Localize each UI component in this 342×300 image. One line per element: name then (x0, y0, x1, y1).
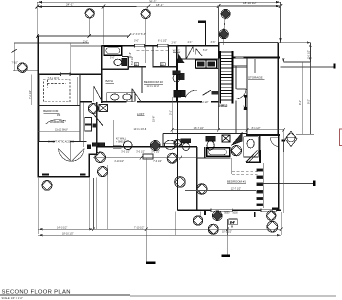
svg-text:3'-0 1/2": 3'-0 1/2" (121, 151, 130, 153)
tag circle-diamond x177.9 (174, 139, 182, 147)
wc corner sink (178, 53, 185, 63)
wall vertical x218.8 (218, 42, 220, 58)
svg-text:16'-7 1/2": 16'-7 1/2" (194, 127, 204, 130)
tick left dim (12, 49, 17, 52)
extension line x103.6 (103, 7, 105, 45)
window tag circle-diamond below (98, 167, 108, 177)
wc door arc (185, 90, 197, 97)
wic walls (177, 46, 186, 59)
bath2 wall left x162.9 (162, 134, 164, 147)
extension line left x37.3 (36, 2, 38, 36)
wall left face x83.3 (82, 102, 84, 147)
wall hall y101.8 (80, 101, 219, 103)
detector circle on wall (124, 141, 133, 150)
bath toilet (114, 59, 127, 66)
closet vertical x231.2 (230, 158, 232, 174)
wall closet divider x153 (152, 46, 154, 67)
hall wc toilet lower (174, 90, 185, 97)
extension x89.3 bottom (88, 178, 90, 229)
dimension line bottom segments y227.6 (38, 227, 282, 231)
window tag circle-diamond dim row (95, 152, 106, 163)
window marks left wing bottom (42, 173, 86, 175)
svg-text:3'-0 1/2": 3'-0 1/2" (151, 151, 160, 153)
wall jog vertical x97 (96, 147, 98, 154)
closet bottom wall y162.2 (246, 161, 261, 163)
svg-text:10'-2 1/2": 10'-2 1/2" (222, 231, 232, 233)
svg-text:3'-6": 3'-6" (211, 41, 216, 44)
wall storage top y57.6 (234, 57, 280, 59)
wall y59 laundry top (177, 58, 218, 60)
extension x93.5 bottom (93, 178, 95, 229)
wall bedroom3 right x79.8 (79, 74, 81, 141)
svg-text:5050: 5050 (224, 213, 230, 215)
svg-text:6'-1 1/2": 6'-1 1/2" (158, 39, 167, 42)
tag box with X (99, 105, 108, 112)
text BATH (106, 79, 114, 83)
window tag left circle-diamond (18, 63, 28, 73)
svg-text:4'-10 1/2": 4'-10 1/2" (114, 161, 124, 163)
window tag boxes on wall (93, 143, 105, 146)
leader through left tag (13, 69, 38, 71)
storage bottom wall y134.8 (246, 134, 280, 136)
laundry appliances (195, 60, 216, 68)
extension x38.2 bottom (37, 178, 39, 234)
svg-text:3'-1": 3'-1" (169, 110, 172, 115)
svg-text:18'-10 1/2": 18'-10 1/2" (62, 232, 74, 235)
svg-text:11'-8": 11'-8" (129, 52, 132, 58)
dimension line y61.8 (282, 58, 310, 62)
text WIC (173, 48, 181, 52)
window in left wing top wall (61, 73, 71, 75)
svg-text:W.I.C.: W.I.C. (173, 48, 181, 52)
tag circle-diamond D (267, 221, 278, 232)
window in top wall 1 (135, 45, 145, 47)
dim row mid y157.7 (93, 156, 197, 160)
bath door swing (94, 86, 102, 101)
black tick below wall 1 (204, 211, 206, 215)
dimension line bottom overall y234.2 (38, 234, 281, 236)
border line bottom (130, 295, 336, 297)
dim texts bottom right (222, 213, 238, 234)
window marks storage left wall (244, 95, 247, 109)
svg-text:42" WALL: 42" WALL (116, 138, 127, 141)
wc toilet (173, 71, 180, 82)
window tag box 1 (134, 63, 139, 67)
bath2 toilet (181, 139, 191, 151)
window in top wall 2 (158, 45, 169, 47)
window tag box 2 (160, 63, 165, 67)
wall left inner face (39, 74, 41, 141)
closet dashes bedroom1 (232, 172, 258, 175)
dimension line y129.8 (171, 128, 285, 132)
wall interior x101.8 (101, 46, 103, 103)
bath2 sink (165, 140, 177, 149)
extension x283.6 bottom (283, 130, 285, 213)
dimension line top segments (37, 5, 280, 8)
bath vanity (107, 93, 135, 102)
closet door arc right (270, 137, 279, 146)
svg-text:3'-0 1/2": 3'-0 1/2" (136, 151, 145, 153)
wall bath y69.3 (102, 68, 129, 70)
tag circle-diamond on dim row x172 (167, 153, 177, 163)
dimension vertical right x310.4 (309, 43, 311, 62)
wall jog y154.3 (88, 153, 97, 155)
wall x258.5 master right (259, 134, 261, 151)
extension line x218.5 (218, 6, 220, 130)
bed dashed (44, 80, 71, 102)
wall wardrobe bottom y141.6 (38, 141, 86, 143)
tag circle-diamond B filled (212, 211, 222, 221)
bath2 wall top y133.7 (163, 133, 247, 135)
wc marks (178, 73, 185, 80)
keynote leader bedroom right (262, 181, 316, 186)
bath2 wall y143.2 (163, 142, 180, 144)
window tag W1 circle-diamond (85, 9, 94, 36)
leader down x226.3 (222, 235, 231, 257)
svg-text:STORAGE: STORAGE (248, 75, 263, 79)
arrowheads dim ends (37, 1, 281, 43)
svg-text:7'-4 1/2": 7'-4 1/2" (29, 90, 32, 99)
wall laundry bottom y68.7 (195, 68, 218, 70)
window tag mid circle-diamond (88, 104, 98, 114)
window tag circle-diamond bedroom1 (197, 184, 208, 195)
dimension line mid-left y36 (36, 34, 130, 38)
wall right exterior x278.4 upper (277, 42, 279, 135)
roof line right top y42.4 (219, 41, 278, 43)
corner block (87, 144, 91, 149)
svg-text:5'-0": 5'-0" (203, 50, 208, 52)
master shower block (222, 135, 230, 142)
svg-text:SCALE: 1/4" = 1'-0": SCALE: 1/4" = 1'-0" (2, 297, 23, 300)
leader down x146.3 (146, 235, 156, 264)
svg-text:3'-0 1/2": 3'-0 1/2" (307, 50, 310, 59)
window tag W2 circle-diamond (141, 9, 150, 63)
svg-text:11'-0 x 11'-8: 11'-0 x 11'-8 (147, 86, 160, 88)
dim vert x172.2 hall (171, 97, 173, 134)
text BEDROOM 1 (227, 180, 246, 184)
wall closet bottom y66.8 (129, 66, 177, 68)
svg-text:BEDROOM #2: BEDROOM #2 (144, 80, 163, 84)
dimension arrowed line right y42.4 (278, 41, 310, 43)
window in loft south wall (113, 146, 122, 149)
wall loft south y146.9 (97, 146, 197, 148)
tick top dim x103.6 (102, 4, 106, 8)
tag circle-diamond E (208, 224, 218, 234)
linen shelves (85, 118, 92, 131)
text shower note (116, 138, 127, 144)
svg-text:7'-10": 7'-10" (12, 62, 18, 65)
keynote flag top (198, 22, 206, 45)
storage dim terminator line (296, 133, 314, 135)
tick top dim x218.5 (217, 4, 221, 8)
svg-text:5'-1" 3'-0" 6'-3": 5'-1" 3'-0" 6'-3" (130, 33, 146, 36)
svg-text:3'-0": 3'-0" (134, 39, 139, 42)
master vanity (244, 137, 258, 157)
keynote flag mid right (282, 140, 285, 153)
roof edge lines (71, 43, 102, 74)
hall door swing 2 (196, 49, 202, 57)
svg-text:7'-10 1/2": 7'-10 1/2" (134, 227, 144, 230)
dim texts above y151 (121, 151, 160, 153)
wall corner x89.2 (88, 154, 90, 178)
angled wall closet (246, 150, 259, 162)
svg-text:2 9R12: 2 9R12 (218, 104, 227, 108)
extension vertical x302.2 (301, 62, 303, 134)
master tub (207, 148, 230, 156)
hall door leaf (203, 90, 211, 95)
bedroom2 door swing (132, 89, 141, 102)
keynote leader right y67 (280, 64, 334, 69)
svg-text:24'-1": 24'-1" (66, 3, 74, 7)
wall top main y45.6 (102, 45, 219, 47)
svg-text:5050: 5050 (233, 213, 239, 215)
wardrobe door arc (46, 120, 66, 124)
interior wall left wing x70.3 (69, 142, 71, 161)
svg-text:WARDROBE: WARDROBE (50, 121, 65, 124)
text LOFT (137, 112, 145, 116)
stair hall wall y66.8 double (233, 66, 247, 67)
wall x196.8 bedroom1 left upper (196, 147, 198, 158)
svg-text:18'-1": 18'-1" (156, 3, 163, 7)
svg-text:BATH: BATH (106, 79, 114, 83)
extension line right x280.5 (280, 2, 282, 42)
wall bath2/bedroom x196.8 (196, 158, 198, 210)
dim texts below y161 (114, 161, 162, 163)
tick top dim x148.5 (147, 4, 151, 8)
door tag lower circle-diamond (219, 29, 228, 45)
extension x196.8 bottom (175, 212, 177, 236)
stairs (220, 51, 232, 104)
wall left wing top y74.2 (37, 73, 101, 75)
red revision bracket (340, 129, 342, 145)
text BEDROOM 3 (43, 109, 60, 117)
svg-text:LOFT: LOFT (137, 112, 145, 116)
closet corner wall x260 (259, 150, 261, 162)
svg-text:12x12 SHLF: 12x12 SHLF (55, 129, 68, 131)
svg-text:12'-7 1/2": 12'-7 1/2" (231, 188, 241, 191)
master door triangle (232, 133, 242, 145)
stair hall door arc (236, 89, 246, 99)
eave line left wing (14, 42, 89, 44)
left wing bottom wall y176.6 (37, 176, 90, 178)
sill mark right (272, 207, 278, 209)
double door arcs left wing (59, 149, 85, 162)
svg-text:18'-10 1/2": 18'-10 1/2" (243, 1, 257, 5)
dimension vertical x31.8 bedroom3 (31, 75, 33, 106)
window tag box on dim row (143, 154, 153, 159)
door tag upper circle-diamond (221, 9, 230, 29)
svg-text:15'-6": 15'-6" (152, 116, 155, 122)
svg-text:14'-0 x 16'-8: 14'-0 x 16'-8 (134, 129, 147, 131)
extension x146.3 bottom (145, 158, 147, 235)
wall closet divider x168.7 (168, 46, 170, 67)
door tag circle-diamond master (231, 146, 241, 156)
window tag circle-diamond left wing below (42, 180, 52, 190)
wall bedroom2 right x176.9 (176, 46, 178, 102)
closet dashes bedroom2 (137, 49, 170, 51)
tag circle-diamond C (267, 211, 277, 221)
svg-text:BEDROOM #1: BEDROOM #1 (227, 180, 246, 184)
svg-text:6'-2 1/2": 6'-2 1/2" (200, 102, 209, 104)
window tag box bottom (229, 219, 238, 228)
wall bedroom1 left exterior x177.5 (177, 102, 179, 211)
shower glass line (113, 120, 115, 147)
svg-text:7'-6 x 13'-5: 7'-6 x 13'-5 (48, 78, 60, 80)
bath tub (104, 46, 122, 55)
window tag circle-diamond on west wall (175, 177, 186, 188)
title underline (0, 294, 130, 296)
svg-text:2'-8": 2'-8" (244, 105, 247, 110)
wc right wall x177.3 (176, 59, 178, 102)
svg-text:9'-1": 9'-1" (299, 100, 302, 105)
extension x226.3 bottom (227, 219, 229, 235)
svg-text:2'-6": 2'-6" (172, 42, 177, 45)
closet shelves right (257, 163, 264, 208)
svg-text:8'-1 1/2": 8'-1 1/2" (252, 127, 261, 130)
window in storage top wall (236, 57, 244, 59)
wardrobe shelf line (38, 130, 80, 132)
wic door swing (187, 46, 194, 58)
wall x204.8 (204, 147, 206, 158)
extension x107.6 bottom (107, 165, 109, 229)
master toilet (206, 136, 215, 150)
hall door text (211, 91, 218, 95)
wall bedroom2 interior x141.8 (141, 67, 143, 93)
svg-text:#3: #3 (57, 113, 61, 117)
wall bedroom3 bottom y105.3 (37, 104, 79, 106)
svg-text:7'-6 1/2": 7'-6 1/2" (153, 161, 162, 163)
wall bath mid y56.3 (122, 55, 129, 57)
black tick below wall 2 (254, 212, 256, 217)
tick top dim left (36, 5, 40, 9)
dim tick storage x255 (254, 59, 256, 73)
wall tub bottom y157.9 (197, 157, 231, 159)
text STORAGE (248, 75, 265, 79)
extension x96.7 bottom (96, 178, 98, 230)
wall storage left x247 (246, 58, 248, 134)
window tag circle-diamond right wall (285, 131, 297, 146)
shower diagonal door (93, 114, 103, 128)
wall left exterior x38.2 (37, 36, 39, 178)
window tag circle-diamond mid wall (150, 141, 160, 151)
svg-text:2'-4": 2'-4" (230, 223, 235, 225)
tag circle-diamond A below wall (193, 212, 203, 226)
wall bedroom1 bottom y210.4 (178, 209, 282, 211)
svg-text:5'-0": 5'-0" (110, 58, 115, 60)
wall bath x128.3 (127, 56, 129, 69)
tick top dim right (279, 4, 283, 8)
text BEDROOM 2 (144, 80, 163, 84)
extension x281.2 bottom (280, 212, 282, 235)
dim marks x77 (76, 77, 78, 105)
interior dim y190.5 (185, 190, 256, 192)
dimension line overall top (37, 1, 280, 3)
extension vertical x310.4 lower (309, 62, 311, 134)
svg-text:4'-1": 4'-1" (188, 41, 193, 44)
wall right exterior x278.7 lower (278, 135, 280, 211)
eave extension left x14 (13, 43, 15, 71)
window in bottom wall 1 (211, 209, 232, 211)
stair hall wall x235.9 (235, 67, 237, 90)
svg-text:14'-3 1/2": 14'-3 1/2" (57, 226, 67, 229)
stair hall wall x235.9 lower (235, 101, 237, 134)
window in bottom wall 2 (261, 209, 276, 211)
svg-text:9'-2": 9'-2" (307, 99, 310, 104)
shower room wall x96.8 (96, 102, 98, 147)
